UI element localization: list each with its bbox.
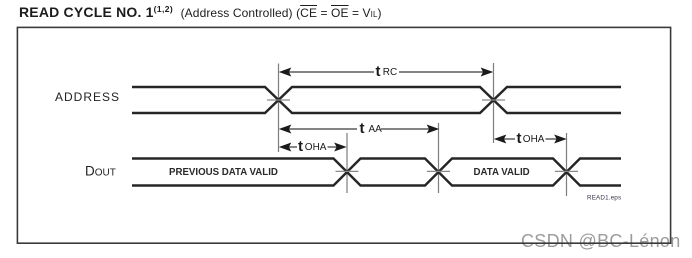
DOUT crossover tick 3 <box>555 170 578 172</box>
ADDRESS crossover tick 1 <box>267 99 290 101</box>
label DATA VALID <box>474 167 530 178</box>
extension line at ADDRESS transition 1 <box>278 64 280 153</box>
ADDRESS bus rail B <box>132 87 621 113</box>
dimension tAA arrowhead left <box>280 125 291 133</box>
dimension tOHA left arrow line left <box>288 146 297 148</box>
dimension tRC arrow line left <box>288 71 374 73</box>
label tAA <box>360 120 383 137</box>
label ADDRESS <box>55 90 120 104</box>
label tOHA left <box>298 138 327 155</box>
extension line at DOUT transition 3 <box>566 133 568 196</box>
DOUT crossover tick 2 <box>427 170 450 172</box>
ADDRESS crossover tick 2 <box>482 99 505 101</box>
svg-text:DATA VALID: DATA VALID <box>474 167 530 178</box>
dimension tOHA left arrowhead right <box>335 143 346 151</box>
dimension tOHA right arrowhead left <box>495 135 506 143</box>
ADDRESS bus rail A <box>132 87 621 113</box>
figure title <box>19 1 382 23</box>
DOUT crossover tick 1 <box>336 170 359 172</box>
extension line at DOUT transition 2 <box>438 123 440 193</box>
watermark CSDN <box>521 232 681 250</box>
svg-text:READ1.eps: READ1.eps <box>587 195 621 202</box>
svg-text:AA: AA <box>369 124 383 135</box>
label tOHA right <box>517 130 545 147</box>
dimension tOHA right arrow line right <box>546 138 559 140</box>
svg-text:t: t <box>376 63 381 80</box>
svg-text:RC: RC <box>383 67 397 78</box>
dimension tRC arrowhead right <box>482 68 493 76</box>
svg-text:t: t <box>298 138 303 155</box>
svg-text:OHA: OHA <box>523 134 545 145</box>
dimension tOHA left arrow line right <box>328 146 339 148</box>
frame border <box>17 27 670 243</box>
dimension tRC arrow line right <box>399 71 485 73</box>
extension line at DOUT transition 1 <box>346 133 348 193</box>
svg-text:DOUT: DOUT <box>85 164 116 179</box>
dimension tOHA right arrow line left <box>503 138 515 140</box>
dimension tOHA right arrowhead right <box>555 135 566 143</box>
svg-text:t: t <box>360 120 365 137</box>
DOUT bus rail A <box>132 159 621 186</box>
svg-text:t: t <box>517 130 522 147</box>
label DOUT <box>85 164 116 179</box>
label PREVIOUS DATA VALID <box>169 167 278 178</box>
dimension tAA arrow line left <box>288 128 357 130</box>
svg-text:OHA: OHA <box>305 142 327 153</box>
label tRC <box>376 63 398 80</box>
dimension tRC arrowhead left <box>280 68 291 76</box>
dimension tOHA left arrowhead left <box>280 143 291 151</box>
label READ1.eps <box>587 195 621 202</box>
DOUT bus rail B <box>132 159 621 186</box>
svg-text:ADDRESS: ADDRESS <box>55 90 120 104</box>
dimension tAA arrowhead right <box>428 125 439 133</box>
svg-text:PREVIOUS DATA VALID: PREVIOUS DATA VALID <box>169 167 278 178</box>
dimension tAA arrow line right <box>381 128 430 130</box>
extension line at ADDRESS transition 2 <box>493 63 495 143</box>
